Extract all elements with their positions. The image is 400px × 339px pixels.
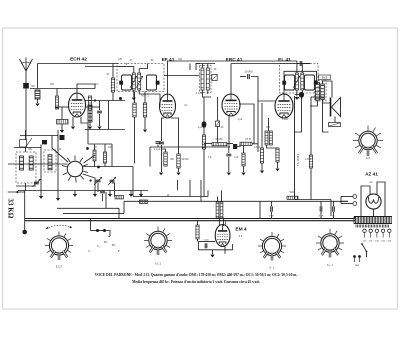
wire	[228, 157, 230, 172]
wire	[161, 149, 163, 172]
junction left	[16, 191, 18, 193]
resistor R AF horizontal	[212, 143, 227, 146]
wire	[271, 212, 273, 219]
wire	[165, 165, 167, 168]
socket diagram EL41 base S4	[316, 229, 344, 258]
wire AVC down	[134, 117, 136, 164]
junction	[96, 229, 99, 232]
inductor MF1 winding 2	[138, 73, 141, 90]
wire switch SE	[83, 174, 95, 191]
wire left vertical top	[37, 64, 39, 89]
wire heater drop	[90, 219, 92, 231]
tube EBC41 U3	[222, 94, 240, 116]
svg-text:5.000: 5.000	[282, 119, 288, 121]
wire	[98, 230, 105, 232]
capacitor loop MF1 primary	[122, 75, 132, 90]
inductor L1b	[20, 156, 24, 170]
capacitor loop MF2 secondary	[305, 75, 315, 90]
socket diagram AZ41 base	[353, 126, 383, 157]
ground MF2	[295, 97, 299, 100]
wire	[204, 143, 212, 145]
IF transformer MF2 box	[280, 64, 319, 94]
svg-text:A Z: A Z	[366, 156, 370, 160]
wire	[237, 144, 240, 147]
wire	[320, 212, 322, 219]
wire	[203, 97, 205, 121]
wire	[207, 64, 209, 69]
wire	[333, 201, 335, 206]
wire	[227, 143, 233, 145]
ground antenna coil	[35, 104, 39, 107]
resistor R EM4 series 1	[216, 202, 219, 218]
wire	[91, 230, 98, 232]
capacitor EF41 cathode bypass	[159, 142, 164, 144]
wire OT in	[316, 71, 318, 82]
wire	[112, 92, 114, 101]
wire	[37, 99, 39, 103]
svg-text:H₂: H₂	[111, 243, 116, 247]
antenna coil box L1	[16, 152, 36, 183]
socket diagram ECH42 base S1	[45, 232, 73, 261]
wire lamp top	[341, 196, 353, 198]
wire	[25, 147, 27, 152]
ground bus	[108, 194, 112, 197]
ground bus	[73, 194, 77, 197]
capacitor filter C2 8uF	[320, 206, 322, 211]
wire	[267, 145, 278, 148]
resistor R AVC 2	[143, 103, 146, 117]
capacitor antenna series	[23, 83, 29, 89]
ground	[143, 130, 147, 133]
wire to speaker bottom	[323, 100, 331, 104]
capacitor mid	[156, 142, 161, 144]
tube EM4 U6	[215, 225, 230, 247]
wire	[277, 162, 279, 168]
wire	[207, 90, 209, 94]
ground ECH42 grid	[60, 130, 64, 133]
wire	[144, 92, 146, 104]
wire	[203, 90, 212, 97]
wire EF41 plate to MF2	[168, 61, 281, 94]
wire	[261, 163, 263, 170]
wire osc top	[85, 100, 125, 102]
wire	[212, 250, 214, 255]
capacitor blob EL screen	[299, 92, 304, 98]
svg-text:T.S.: T.S.	[208, 157, 212, 159]
wire coupling	[251, 77, 258, 91]
wire EM4 lead 1	[218, 218, 220, 226]
wire	[330, 200, 332, 217]
wire	[340, 197, 342, 204]
inductor T2 secondary	[321, 84, 325, 100]
inductor MF2 winding 2	[301, 73, 304, 90]
wire	[56, 89, 58, 97]
wire osc right	[108, 101, 110, 130]
svg-text:EM 4: EM 4	[235, 227, 247, 233]
wire OT junction	[311, 96, 324, 98]
wire left h1	[14, 147, 41, 149]
wire	[354, 217, 356, 219]
resistor small on rail	[140, 200, 148, 203]
capacitor blob MF1 secondary	[156, 81, 160, 85]
wire	[197, 221, 199, 225]
wire MF1 top link	[139, 65, 147, 69]
rotation arrow	[46, 225, 72, 229]
ground EL grid	[241, 173, 245, 176]
wire EL grid down	[261, 103, 263, 148]
resistor R EL41 bias	[276, 148, 279, 162]
inductor MF1 winding 1	[132, 73, 135, 90]
ground EL cathode	[275, 169, 279, 172]
wire osc to MF1	[85, 66, 118, 68]
wire switch to coils NW	[52, 136, 68, 163]
wire left v S	[57, 130, 59, 198]
junction osc blob 2	[97, 166, 100, 169]
wire	[221, 190, 223, 202]
socket diagram EBC41 base S3	[258, 232, 286, 261]
wire MF1 top a	[133, 67, 135, 74]
terminal pin dot	[22, 230, 27, 235]
wire	[271, 201, 273, 206]
wire ECH42 heater lead	[81, 117, 88, 144]
ground AF cap	[227, 173, 231, 176]
wire	[296, 90, 298, 97]
wire	[112, 64, 114, 79]
capacitor coupling 10000	[248, 74, 250, 79]
wire EL41 plate to OT	[284, 71, 317, 94]
ground EF41 cathode	[159, 173, 163, 176]
wire grid EL41	[258, 90, 275, 101]
capacitor osc pad	[100, 191, 105, 193]
wire ground bus left	[18, 190, 148, 192]
wire switch NE	[84, 155, 96, 163]
wire	[104, 144, 106, 152]
wire heater bus A	[25, 218, 355, 220]
capacitor blob MF2 secondary	[314, 81, 318, 85]
wire	[162, 145, 166, 152]
svg-text:1 µF: 1 µF	[198, 127, 203, 129]
wire stub	[109, 191, 111, 195]
wire rail y196	[133, 196, 208, 198]
wire stub	[94, 191, 96, 195]
wire	[303, 63, 310, 65]
wire AZ plate 1	[361, 186, 370, 216]
svg-text:6 + 1: 6 + 1	[327, 264, 333, 267]
wire to speaker top	[323, 81, 333, 98]
resistor R AVC 1	[133, 103, 136, 117]
wire	[123, 201, 125, 213]
lamp LP1	[353, 195, 357, 199]
wire grid line left	[55, 106, 69, 108]
wire	[297, 63, 299, 65]
svg-text:25.000: 25.000	[181, 159, 189, 161]
wire	[228, 147, 230, 153]
wire	[217, 127, 219, 144]
capacitor AF bypass	[226, 154, 231, 156]
diode load box	[200, 66, 212, 93]
wire left v R	[40, 144, 42, 196]
resistor R diode load 2	[206, 68, 209, 90]
wire B+ center vertical	[294, 96, 296, 200]
tube EL41 U4	[275, 94, 293, 118]
wire EL cathode	[268, 118, 270, 131]
resistor R EL grid leak	[242, 153, 245, 166]
junction blob MF1	[119, 97, 122, 100]
wire	[197, 239, 199, 242]
wire	[280, 60, 297, 62]
wire ECH42 cathode	[72, 117, 74, 126]
ground screen cap	[176, 173, 180, 176]
wire	[203, 128, 205, 135]
wire chassis box left	[259, 201, 261, 218]
wire antenna to coil	[25, 89, 27, 136]
capacitor loop MF1 secondary	[147, 75, 157, 90]
resistor R EF41 cathode	[164, 152, 167, 166]
wire	[217, 197, 219, 203]
output transformer T2 box	[315, 81, 327, 102]
svg-text:6 - 1: 6 - 1	[269, 267, 275, 270]
resistor R2 47k	[111, 78, 114, 92]
capacitor square AF	[233, 144, 237, 149]
wire left rail to switch	[8, 163, 68, 165]
svg-text:33 KΩ: 33 KΩ	[7, 199, 15, 219]
capacitor trimmer ant	[20, 138, 32, 148]
svg-text:1.000: 1.000	[305, 159, 311, 161]
svg-text:EL 41: EL 41	[278, 57, 291, 63]
wire lower mid rail	[124, 200, 348, 202]
resistor R EL41 cathode 2	[269, 131, 272, 145]
wire	[25, 183, 27, 191]
wire lamp bottom	[341, 203, 353, 205]
wire osc top	[88, 143, 112, 145]
tube AZ41 U5	[366, 194, 381, 209]
inductor antenna primary	[35, 90, 40, 99]
resistor volume horizontal	[115, 196, 124, 199]
ground bus	[93, 194, 97, 197]
resistor R EBC grid leak	[202, 135, 205, 149]
antenna	[20, 58, 33, 72]
capacitor blob MF1 primary	[119, 81, 123, 85]
wire stub	[74, 191, 76, 195]
wire	[97, 183, 99, 192]
junction osc	[94, 99, 96, 101]
svg-text:50: 50	[31, 84, 35, 88]
wire EM4 loop	[198, 242, 232, 250]
svg-text:2 µF: 2 µF	[238, 119, 243, 121]
wire	[333, 212, 335, 219]
capacitor grid ECH42	[57, 120, 69, 125]
resistor R osc grid	[88, 96, 91, 110]
inductor L osc	[88, 105, 92, 122]
wire MF1 top b	[138, 69, 140, 74]
wire rail y208	[57, 207, 119, 209]
wire B+ vertical right	[310, 97, 312, 155]
wire AVC to diode box	[164, 75, 200, 77]
wire	[94, 144, 96, 150]
wire	[105, 192, 107, 208]
capacitor filter C3 16uF	[333, 206, 335, 211]
ground padder	[97, 127, 101, 130]
wire	[99, 101, 101, 111]
terminal strip primary taps	[363, 229, 391, 237]
resistor R EM4 series 2	[220, 202, 223, 218]
ground left 1	[39, 196, 43, 199]
capacitor blob left	[60, 135, 65, 140]
ground EL grid R	[260, 171, 264, 174]
wire	[94, 161, 96, 167]
inductor L1a	[29, 156, 33, 170]
wire y147 left	[150, 146, 196, 148]
wire y147	[196, 146, 230, 148]
wire	[104, 163, 106, 167]
wire switch	[366, 252, 368, 258]
wire	[189, 64, 191, 71]
svg-text:5.000: 5.000	[203, 240, 209, 242]
wire speaker return	[323, 103, 329, 132]
svg-text:50.000: 50.000	[215, 139, 223, 141]
label heater letters	[88, 240, 121, 253]
svg-text:ECH 42: ECH 42	[70, 57, 87, 63]
wire	[105, 231, 111, 237]
svg-text:EF 41: EF 41	[162, 57, 175, 63]
wire	[207, 190, 209, 196]
wire heater bus B	[25, 220, 355, 222]
wire left h2	[20, 135, 58, 137]
svg-text:C₁: C₁	[88, 249, 91, 253]
ground EM4	[210, 255, 214, 258]
wire	[217, 97, 219, 121]
wire EBC cathode down	[228, 117, 230, 148]
wire ECH42 plate	[77, 84, 95, 93]
wire speaker coil	[334, 117, 336, 123]
arrow heater	[108, 236, 110, 238]
wire	[8, 191, 25, 193]
trimmer arrow MF1a	[130, 76, 137, 88]
svg-text:T.S. 4879-2: T.S. 4879-2	[297, 153, 300, 166]
ground osc	[88, 127, 92, 130]
wire	[111, 144, 113, 167]
resistor R EF41 screen	[177, 154, 180, 168]
wire	[102, 194, 104, 201]
wire grid bus y88	[30, 88, 95, 90]
wire screen down	[171, 118, 179, 154]
resistor R osc 2	[93, 150, 96, 161]
wire to EL grid	[252, 144, 258, 152]
wire	[320, 201, 322, 206]
svg-text:0,5 M: 0,5 M	[254, 147, 260, 149]
component box det	[216, 121, 220, 127]
wire down to pin	[24, 191, 26, 232]
svg-text:F 1: F 1	[239, 235, 243, 238]
svg-text:rete: rete	[355, 264, 360, 267]
capacitor electrolytic EBC cathode	[202, 121, 207, 128]
svg-text:Media frequenza 465 kc. Potenz: Media frequenza 465 kc. Potenza d'uscita…	[132, 280, 260, 284]
switch power	[361, 243, 367, 252]
resistor R osc 3	[104, 152, 107, 163]
wire EF41 grid	[159, 100, 162, 106]
resistor R EM4 grid	[196, 225, 199, 239]
svg-text:8 µF: 8 µF	[319, 216, 324, 218]
svg-text:VOCE DEL PADRONE - Mod. 513. Q: VOCE DEL PADRONE - Mod. 513. Quattro gam…	[95, 273, 298, 277]
wire AZ plate 2	[377, 182, 385, 216]
wire	[16, 185, 36, 187]
wire OT bottom	[310, 100, 318, 106]
inductor MF2 winding 1	[295, 73, 298, 90]
wire ECH42 grid left	[61, 107, 63, 120]
tube EF41 U2	[160, 94, 176, 118]
wire rail y213	[63, 212, 124, 214]
capacitor loop MF2 primary	[285, 75, 295, 90]
wire MF1 feed	[118, 66, 134, 68]
wire	[126, 64, 128, 65]
resistor R diode load 1	[201, 68, 204, 90]
tube ECH42 U1	[69, 93, 86, 117]
svg-text:E C F: E C F	[56, 266, 63, 269]
wire MF2 sec to det	[295, 90, 303, 95]
resistor R AF horizontal 2	[240, 142, 252, 145]
wire	[147, 64, 149, 65]
svg-text:0,5 M: 0,5 M	[245, 139, 251, 141]
wire	[144, 117, 146, 129]
wire EL screen bypass	[294, 98, 302, 133]
svg-text:AZ 41: AZ 41	[365, 172, 378, 177]
wire MF1 sec bottom	[139, 90, 160, 100]
wire y199	[295, 199, 332, 201]
svg-text:EBC 41: EBC 41	[226, 57, 243, 63]
wire	[178, 168, 180, 172]
wire stub	[177, 180, 179, 190]
wire MF1 prim bottom	[133, 90, 135, 97]
socket diagram EF41 base S2	[144, 227, 172, 256]
resistor R field horizontal	[287, 196, 298, 199]
wire	[196, 64, 200, 71]
capacitor C EM4	[205, 243, 207, 248]
wire EM4 lead 2	[222, 218, 224, 226]
wire stub	[140, 191, 142, 195]
resistor R EL41 grid	[260, 148, 263, 163]
wire stub	[130, 191, 132, 195]
capacitor blob MF2 primary	[282, 81, 286, 85]
wire	[132, 167, 134, 197]
junction switch bottom	[90, 179, 92, 181]
wire top run to MF1	[38, 63, 119, 65]
wire switch to right	[83, 166, 133, 168]
wire	[112, 183, 115, 197]
capacitor detector	[212, 75, 217, 81]
wire EBC plate right	[239, 104, 254, 144]
ground bus	[129, 194, 133, 197]
wire	[89, 110, 91, 126]
ground left 2	[56, 198, 60, 201]
transformer T1 windings	[354, 217, 392, 228]
wire grid line right	[86, 106, 100, 108]
wire	[189, 180, 191, 197]
wire antenna lead	[25, 71, 27, 83]
trimmer arrow MF2a	[293, 76, 300, 88]
wire	[134, 92, 136, 104]
resistor R EL41 cathode	[265, 131, 268, 145]
svg-text:8 µF: 8 µF	[269, 216, 274, 218]
wire	[157, 145, 159, 148]
IF transformer MF1 box	[117, 64, 164, 92]
wire diode top	[196, 63, 215, 65]
resistor R dropping	[309, 155, 312, 168]
wire	[257, 101, 259, 144]
svg-text:6 C 1: 6 C 1	[155, 263, 162, 266]
wire	[243, 145, 245, 153]
capacitor trimmer osc	[34, 182, 39, 184]
ground bus	[139, 194, 143, 197]
